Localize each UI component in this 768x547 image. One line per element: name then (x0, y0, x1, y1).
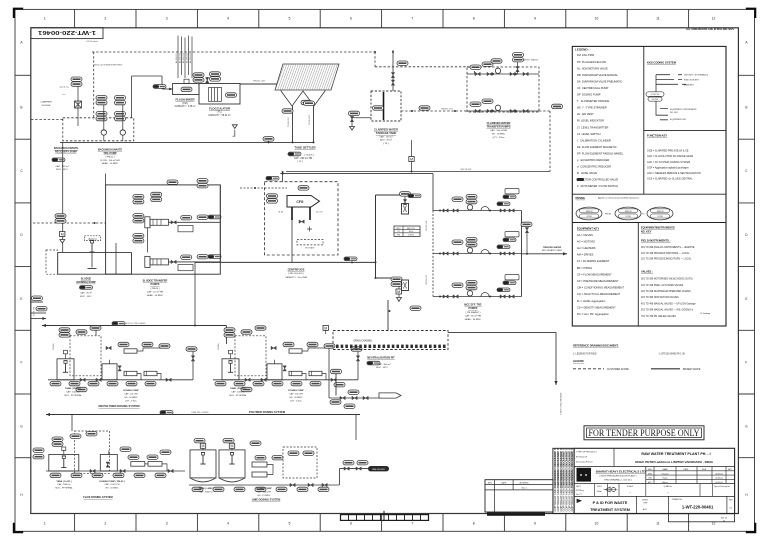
svg-text:MOC : PP SPIRAL: MOC : PP SPIRAL (64, 394, 82, 397)
tank 2 (267, 364, 282, 380)
svg-text:BR = PIPING: BR = PIPING (577, 266, 592, 270)
extra valve (283, 366, 286, 371)
svg-text:DM POLYMER DOSING SYSTEM: DM POLYMER DOSING SYSTEM (98, 404, 140, 408)
svg-text:KKS CODING SYSTEM: KKS CODING SYSTEM (647, 60, 677, 64)
dashed enclosure (235, 336, 266, 376)
svg-text:MOC : RCC: MOC : RCC (56, 169, 68, 171)
left frame tag upper (32, 296, 43, 300)
svg-text:CLARIFIED WATER: CLARIFIED WATER (374, 128, 398, 132)
sump water line (58, 251, 132, 253)
wire: channel outfall (448, 331, 556, 333)
piping code ovals (576, 207, 602, 220)
svg-text:DATE: DATE (501, 481, 507, 484)
svg-text:(DOSING) SUMP: (DOSING) SUMP (76, 281, 96, 284)
svg-text:( FM ): ( FM ) (182, 103, 188, 105)
svg-text:E: E (745, 297, 747, 301)
wire: pump1 discharge (169, 221, 221, 223)
svg-text:02-02-04: 02-02-04 (715, 478, 722, 480)
svg-text:CD = DENSITY MEASUREMENT: CD = DENSITY MEASUREMENT (577, 305, 616, 309)
svg-text:HEAD : 30 MWC: HEAD : 30 MWC (465, 318, 482, 321)
svg-text:F: F (21, 361, 23, 365)
dosing pumps (131, 462, 145, 467)
pump discharge dashed to right/down (539, 110, 550, 112)
svg-text:SLUDGE: SLUDGE (42, 105, 52, 107)
svg-text:CAP : 0-6 LPH: CAP : 0-6 LPH (289, 393, 303, 396)
svg-text:TREATMENT SYSTEM: TREATMENT SYSTEM (590, 508, 630, 512)
svg-text:TUBE SETTLER: TUBE SETTLER (294, 146, 315, 150)
pump: MCC eff 2 (467, 248, 472, 253)
centrifuge CFG symbol (287, 196, 320, 208)
pump: backwash transfer (101, 130, 106, 135)
svg-text:( TK ): ( TK ) (383, 143, 389, 145)
pump train 1 (433, 210, 522, 212)
svg-text:RAW WATER TREATMENT PLANT PH.: RAW WATER TREATMENT PLANT PH. - I (641, 452, 710, 456)
svg-text:EFF QTY: EFF QTY (407, 228, 415, 230)
actuated valve stack upper (402, 204, 409, 215)
svg-text:CAPACITY : 58.32 m³: CAPACITY : 58.32 m³ (208, 114, 230, 117)
instrument tags above flocculator (193, 73, 204, 82)
svg-text:Dte YY: Dte YY (576, 493, 582, 496)
svg-text:EQUIPMENT/INSTRUMENTS: EQUIPMENT/INSTRUMENTS (641, 227, 675, 230)
svg-text:5: 5 (289, 17, 291, 21)
pump: MCC eff 3 (467, 291, 472, 296)
svg-text:CL Garbage: CL Garbage (700, 312, 710, 315)
svg-text:AH = HEATERS: AH = HEATERS (577, 246, 596, 250)
svg-text:FROM: FROM (605, 214, 611, 216)
svg-text:TYPE: TYPE (643, 502, 648, 504)
title block: notes column (vertical text) (553, 448, 574, 513)
wire: drop to polymer sys 2 (225, 326, 227, 345)
svg-text:GCF = CL EVOLUTION DG RANGE G: GCF = CL EVOLUTION DG RANGE GEAR (647, 155, 693, 158)
filtrate dashed box (297, 240, 323, 245)
channel weir teeth (336, 345, 339, 348)
svg-text:SL IN: SL IN (278, 212, 283, 214)
setpoint box pump2 (178, 265, 193, 271)
svg-text:DOSING PUMP ( PM-02 ): DOSING PUMP ( PM-02 ) (99, 481, 125, 483)
svg-text:11: 11 (656, 521, 660, 525)
wire: lime/FeCl3 dosing header (46, 414, 360, 416)
scope legend lines (573, 368, 604, 370)
stamp: FOR TENDER PURPOSE ONLY (584, 426, 704, 440)
svg-text:101 TO 199 PNEU. ACTUATED VAL: 101 TO 199 PNEU. ACTUATED VALVES (641, 284, 684, 287)
svg-text:AVG : 29 m³: AVG : 29 m³ (380, 139, 392, 142)
manifold valves (80, 378, 85, 381)
svg-text:PUMPS: PUMPS (151, 283, 160, 286)
svg-text:AREA KEY: AREA KEY (684, 83, 695, 86)
svg-text:8: 8 (473, 17, 475, 21)
svg-text:CLARIFIED WATER: CLARIFIED WATER (487, 121, 511, 125)
wire: tank drain (352, 117, 371, 119)
svg-text:CAP : 800 m³: CAP : 800 m³ (377, 363, 390, 366)
svg-text:B: B (745, 106, 747, 110)
tags above enclosure (167, 180, 178, 184)
wire: stub (206, 77, 208, 84)
wire: floc outlet (240, 83, 277, 85)
svg-text:ENERGY WASTE: ENERGY WASTE (522, 58, 539, 61)
svg-text:LS(H/L): LS(H/L) (53, 343, 55, 350)
svg-text:ALTERED: ALTERED (519, 481, 529, 484)
backwash pump tag stacks (96, 96, 107, 105)
svg-text:DM POLY TRF & FEED: DM POLY TRF & FEED (124, 323, 146, 325)
wire: tank outlet dashed to pumps (401, 110, 467, 112)
svg-text:( TS-001 ): ( TS-001 ) (304, 154, 314, 156)
backwash waste instrument tags (71, 77, 82, 86)
svg-text:( PM 06A/B/C ): ( PM 06A/B/C ) (466, 311, 481, 314)
svg-text:1: 1 (44, 17, 46, 21)
svg-text:BIDDER SCOPE: BIDDER SCOPE (683, 369, 701, 371)
svg-text:EQUIPMENT KEY: EQUIPMENT KEY (577, 226, 599, 230)
svg-text:PP PLUGGED FELLOW: PP PLUGGED FELLOW (577, 60, 607, 64)
valve with X body (75, 101, 82, 108)
svg-text:QTY : 2 Nos: QTY : 2 Nos (493, 137, 506, 139)
svg-text:CAP : 20 m³: CAP : 20 m³ (80, 291, 92, 294)
tags train A (470, 65, 481, 69)
svg-text:CODE: CODE (586, 216, 592, 218)
wire: to flash mixer (132, 75, 162, 77)
svg-text:VALVES :: VALVES : (641, 270, 653, 274)
wire: backwash discharge riser (131, 76, 133, 118)
svg-text:REV: REV (488, 482, 493, 484)
tag: RW-SL line (153, 85, 166, 89)
svg-text:F: F (745, 361, 747, 365)
svg-text:PIPING: PIPING (576, 196, 585, 200)
wire: pump2 discharge (169, 261, 221, 263)
svg-text:CQ = ANALYTICAL MEASUREMENT: CQ = ANALYTICAL MEASUREMENT (577, 292, 621, 296)
manifold valves/tags (90, 469, 95, 472)
svg-text:DA DIAPHRAGM VALVE PNEUMATIC: DA DIAPHRAGM VALVE PNEUMATIC (577, 79, 622, 83)
tags below manifold (50, 381, 61, 385)
svg-text:b ROTA METER / FLOW SWITCH: b ROTA METER / FLOW SWITCH (577, 184, 618, 188)
dashed inlet from left (31, 119, 63, 121)
svg-text:CODE: CODE (657, 216, 663, 218)
svg-text:MCC: MCC (396, 228, 401, 230)
svg-text:LIME SLURRY: LIME SLURRY (372, 469, 386, 471)
tag stack above tanks (59, 328, 70, 337)
tank: flash mixer (173, 84, 199, 95)
extra valve (118, 366, 121, 371)
svg-text:CW-RL-015: CW-RL-015 (426, 275, 428, 285)
svg-text:MOC : RCC: MOC : RCC (80, 296, 92, 298)
pump train B line (467, 110, 539, 112)
lime slurry outlet (338, 469, 340, 485)
svg-text:001 TO 099 MOTORISED VALVE (N: 001 TO 099 MOTORISED VALVE (NO/NC OUTS) (641, 278, 693, 281)
third angle projection symbol (612, 488, 616, 492)
wire: tank inlet drop (392, 50, 394, 91)
svg-text:5: 5 (289, 521, 291, 525)
svg-text:AM = DRIVES: AM = DRIVES (577, 253, 594, 257)
svg-text:001 TO 099 ANALOG INSTRUMENTS: 001 TO 099 ANALOG INSTRUMENTS — REMOTE (641, 246, 695, 249)
svg-text:FUNCTION KEY: FUNCTION KEY (647, 134, 667, 138)
valve on transfer (271, 346, 276, 349)
svg-text:DOSING PUMP: DOSING PUMP (256, 488, 272, 490)
svg-text:DOSING PUMP: DOSING PUMP (288, 390, 304, 392)
title block: revision table (left) (485, 480, 553, 512)
svg-text:101 TO 199 PROCESS SWITCHES —: 101 TO 199 PROCESS SWITCHES — LOCAL (641, 252, 690, 255)
svg-text:speed reg: speed reg (60, 87, 69, 89)
KKS bracket diagram (656, 75, 686, 97)
svg-text:7: 7 (411, 521, 413, 525)
tag inside flash mixer (181, 87, 192, 91)
pump: dosing 1 (289, 371, 302, 375)
svg-text:DATE: DATE (684, 468, 689, 471)
svg-text:4: 4 (227, 17, 229, 21)
svg-text:DRAWG NO.: DRAWG NO. (672, 498, 683, 501)
wire: scope dash to pumps (375, 66, 474, 68)
tag pit inlet (331, 369, 342, 373)
sludge transfer pump 1 (145, 217, 150, 228)
svg-text:RECOVERY SUMP: RECOVERY SUMP (55, 151, 77, 154)
pump: clarified water train B (495, 105, 500, 110)
small valves on flocculator top (206, 78, 209, 83)
wire: drop to train A (517, 62, 519, 74)
scale bar (341, 515, 429, 521)
top tags of pump cluster (491, 59, 502, 63)
pump: clarified water train A (495, 68, 500, 73)
bottom row: title + number (636, 496, 638, 513)
legend symbol for MV row (577, 178, 584, 181)
svg-text:LS(H/L): LS(H/L) (218, 343, 220, 350)
svg-text:DOCUMENT IS: DOCUMENT IS (570, 448, 574, 467)
svg-text:CM = CONDITIONING MEASUREMENT: CM = CONDITIONING MEASUREMENT (577, 286, 624, 290)
manifold line FeCl3 (46, 470, 185, 472)
tank 2 (100, 455, 117, 472)
svg-text:HD : 50 MWC: HD : 50 MWC (125, 397, 138, 399)
tank 2 (102, 364, 117, 380)
svg-text:SIZE IN: SIZE IN (625, 211, 632, 213)
svg-text:2 NOS: 2 NOS (408, 235, 414, 237)
svg-text:P & ID FOR WASTE: P & ID FOR WASTE (593, 501, 628, 505)
MCC pump manifold (432, 211, 434, 297)
tank 1 with agitator (222, 359, 239, 380)
svg-text:2: 2 (104, 17, 106, 21)
svg-text:POLYMER DOSING SYSTEM: POLYMER DOSING SYSTEM (249, 410, 286, 414)
svg-text:201 TO 299 PROCESS INDICATORS: 201 TO 299 PROCESS INDICATORS — LOCAL (641, 258, 692, 261)
svg-text:1. LEGEND FOR P&ID: 1. LEGEND FOR P&ID (573, 353, 597, 355)
extra tag FeCl3 b (160, 450, 171, 454)
svg-text:AL-DS-001: AL-DS-001 (175, 52, 178, 63)
svg-text:LEGEND : -: LEGEND : - (575, 48, 591, 52)
tag at drain (349, 111, 360, 115)
wire: drop to pump suction (473, 67, 475, 74)
svg-text:NO. KEY: NO. KEY (670, 112, 679, 114)
left small table (394, 226, 420, 236)
flocculator paddle grid (209, 88, 222, 102)
wire: scope dash left drop (93, 52, 95, 120)
wire: drop to FeCl3 (71, 415, 73, 432)
svg-text:CENTRIFUGE: CENTRIFUGE (288, 267, 305, 271)
svg-text:00 XXX: 00 XXX (652, 99, 659, 101)
svg-text:AV AIR VENT: AV AIR VENT (577, 112, 594, 116)
svg-text:BHARAT HEAVY ELECTRICALS LTD.: BHARAT HEAVY ELECTRICALS LTD. (596, 469, 647, 473)
svg-text:RW-RL-007: RW-RL-007 (441, 108, 453, 110)
svg-text:rev: rev (63, 94, 66, 96)
left instrument stack lower (398, 281, 400, 302)
sump level instruments (55, 214, 66, 223)
tag in tank (373, 106, 384, 110)
pump: backwash transfer (120, 130, 125, 135)
svg-text:AL-DS-005: AL-DS-005 (189, 52, 192, 63)
wire: line into sump area (62, 142, 64, 252)
wire: instrument stem (77, 86, 79, 126)
svg-text:FLASH MIXER: FLASH MIXER (176, 98, 195, 102)
svg-text:FUNCTION KEY: FUNCTION KEY (684, 80, 700, 82)
svg-text:TRF. PUMP: TRF. PUMP (103, 152, 117, 155)
svg-text:AG = MOTORS: AG = MOTORS (577, 239, 595, 243)
svg-text:701 TO 799 PR. RELIEF VALVES: 701 TO 799 PR. RELIEF VALVES (641, 315, 676, 318)
pump: dosing 2 (144, 371, 157, 375)
svg-text:12: 12 (712, 17, 716, 21)
svg-text:SH. 01: SH. 01 (721, 517, 728, 519)
svg-text:1-WT-220-00461: 1-WT-220-00461 (38, 29, 96, 35)
svg-text:Gen 1: Gen 1 (521, 488, 527, 490)
svg-text:CAP : 150 m³: CAP : 150 m³ (55, 165, 68, 168)
svg-text:NO. KEY: NO. KEY (641, 230, 652, 233)
setpoint box pump1 (178, 225, 193, 231)
svg-text:CW-RL-014: CW-RL-014 (426, 221, 428, 231)
upper dosing pump (124, 349, 137, 353)
wire: settler sludge leg 2 (313, 106, 315, 142)
sump dashed extension (46, 250, 58, 274)
svg-text:CAP : 100 m³/HR: CAP : 100 m³/HR (490, 129, 507, 132)
svg-text:EQUIPMENT / INSTRUMENT: EQUIPMENT / INSTRUMENT (670, 109, 697, 111)
svg-text:CF CENTRIFUGAL PUMP: CF CENTRIFUGAL PUMP (577, 86, 609, 90)
wire: pump column (122, 105, 124, 131)
svg-text:CAPACITY : 4.35 m³: CAPACITY : 4.35 m³ (175, 105, 196, 108)
svg-text:TYPE OF PRODUCT: TYPE OF PRODUCT (576, 451, 597, 453)
extra tag FeCl3 a (120, 447, 131, 451)
svg-text:Noida: Noida (597, 491, 602, 493)
svg-text:B HOSE VALVE: B HOSE VALVE (577, 171, 597, 175)
black capsule: to lime slurry (368, 466, 389, 471)
chemical dosing feed risers into flash mixer (177, 36, 179, 79)
svg-text:WKD: WKD (648, 469, 653, 471)
tag: CLW TNK (552, 104, 563, 108)
funnel: drain (350, 127, 355, 131)
svg-text:( PM-01 ): ( PM-01 ) (105, 156, 114, 158)
wire: long connector above (280, 173, 433, 175)
svg-text:PUMPS: PUMPS (469, 307, 478, 310)
svg-text:UNIT KEY ( SYSTEMATIC): UNIT KEY ( SYSTEMATIC) (684, 74, 709, 77)
svg-text:201 TO 299 DIAPHRAGM OPERATED: 201 TO 299 DIAPHRAGM OPERATED VALVES (641, 290, 691, 293)
svg-text:WS-TK-001: WS-TK-001 (461, 169, 473, 171)
svg-text:CAP : 292 m³/ HR: CAP : 292 m³/ HR (294, 157, 313, 160)
wire: filtrate line (195, 261, 376, 263)
centrifuge tags (266, 176, 279, 180)
svg-text:DRAIN CHANNEL: DRAIN CHANNEL (354, 340, 373, 343)
tags above lime tanks (194, 439, 205, 443)
wire: cake drop (291, 220, 293, 262)
svg-text:SIZE IN: SIZE IN (657, 211, 664, 213)
wire: drop to lime (355, 415, 357, 441)
svg-text:Type of Drawing No.: Type of Drawing No. (714, 486, 731, 488)
pump tag clusters (133, 195, 144, 204)
svg-text:S.Kumar: S.Kumar (662, 473, 669, 475)
svg-text:( FL ): ( FL ) (217, 112, 223, 114)
tags train B (470, 102, 481, 106)
svg-text:STORAGE TANK: STORAGE TANK (376, 131, 397, 135)
drop off treated line (526, 232, 528, 254)
upper dosing pump (289, 349, 302, 353)
svg-text:9: 9 (534, 17, 536, 21)
wire: polymer dosing header (42, 325, 226, 327)
svg-text:MCC EFF. TRF.: MCC EFF. TRF. (464, 304, 482, 307)
manifold line lime (189, 484, 339, 486)
svg-text:CLARIFIER: CLARIFIER (40, 101, 52, 104)
svg-text:ON Tender/t: ON Tender/t (86, 40, 98, 43)
wire: settler sludge leg 1 (292, 106, 294, 142)
svg-text:REFERENCE DRAWING/DOCUMENT:: REFERENCE DRAWING/DOCUMENT: (573, 344, 619, 348)
wire: inner vertical (115, 243, 117, 274)
svg-text:GCB = CLARIFIED PRE AGE LR: GCB = CLARIFIED PRE AGE LR & CE (647, 150, 689, 153)
svg-text:TANK ( PM-03 ): TANK ( PM-03 ) (230, 387, 246, 390)
middle row cells (574, 495, 735, 497)
svg-text:B: B (20, 106, 22, 110)
svg-text:HD : 50 MWC: HD : 50 MWC (290, 397, 303, 399)
pump: dosing 2 (309, 371, 322, 375)
svg-text:ci CONCENTRIC REDUCER: ci CONCENTRIC REDUCER (577, 165, 611, 169)
svg-text:CFG: CFG (296, 200, 304, 204)
svg-text:p ECCENTRIC REDUCER: p ECCENTRIC REDUCER (577, 158, 609, 162)
svg-text:30 m³: 30 m³ (409, 230, 414, 233)
svg-text:PROJ: PROJ (597, 486, 602, 488)
lime transfer pumps (252, 462, 267, 467)
svg-text:SLUDGE TRANSFER: SLUDGE TRANSFER (143, 280, 168, 283)
tag: TS-PL (288, 152, 301, 156)
svg-text:NL NON RETURN VALVE: NL NON RETURN VALVE (577, 66, 608, 70)
drain channel (dashed outline) (333, 331, 448, 350)
svg-text:I CALIBRATION CYLINDER: I CALIBRATION CYLINDER (577, 138, 611, 142)
pump: dosing 1 (124, 371, 137, 375)
svg-text:AT = FILTERING ELEMENT: AT = FILTERING ELEMENT (577, 259, 610, 263)
wire: scope dash drop (374, 52, 376, 67)
wire: drop into mixer (161, 76, 163, 89)
svg-text:E: E (20, 297, 22, 301)
svg-text:Schematic/Fixture: Schematic/Fixture (576, 460, 593, 463)
svg-text:1: 1 (44, 521, 46, 525)
svg-text:GCK = CC SYSTEM, DOSING SYSTEM: GCK = CC SYSTEM, DOSING SYSTEM (647, 161, 690, 164)
sump agitator (85, 236, 101, 241)
wire: waste line to centrifuge (286, 171, 550, 173)
svg-text:FOR TENDER PURPOSE ONLY: FOR TENDER PURPOSE ONLY (589, 429, 700, 439)
svg-text:TANK ( FeCl3 ): TANK ( FeCl3 ) (56, 480, 71, 483)
svg-text:FR FLOW ELEMENT PADDLE WHEEL: FR FLOW ELEMENT PADDLE WHEEL (577, 151, 624, 155)
svg-text:FLOCCULATOR: FLOCCULATOR (209, 106, 230, 110)
tag inside flocculator (226, 93, 237, 97)
svg-text:QTY : 2 Nos.: QTY : 2 Nos. (290, 400, 302, 402)
svg-text:NAME: NAME (662, 468, 668, 471)
svg-text:SIGN: SIGN (702, 469, 707, 471)
tank: flocculator (199, 84, 240, 105)
right table (name/date) (645, 467, 647, 484)
svg-text:Mohan: Mohan (662, 482, 668, 484)
valve pump2 discharge (171, 260, 176, 263)
dashed enclosure (75, 431, 110, 473)
pump: MCC eff 1 (467, 205, 472, 210)
svg-text:CF = FLOW MEASUREMENT: CF = FLOW MEASUREMENT (577, 272, 612, 276)
svg-text:BY Hand Of: BY Hand Of (576, 456, 587, 458)
svg-text:DB DIAPHRAGM VALVE MANUAL: DB DIAPHRAGM VALVE MANUAL (577, 73, 619, 77)
svg-text:: 1-WT-220-00462 FIG. 00: : 1-WT-220-00462 FIG. 00 (658, 353, 686, 355)
weir plate in tank (383, 92, 385, 120)
svg-text:CAPACITY : 20 m³/HR: CAPACITY : 20 m³/HR (285, 276, 307, 279)
svg-text:FC-RL-001: FC-RL-001 (34, 307, 36, 316)
tag 2 on settler (304, 101, 315, 105)
drawing number box top-left (31, 28, 103, 39)
agitator shaft (89, 240, 94, 252)
tube settler hatched media (275, 64, 339, 90)
svg-text:( TS ): ( TS ) (297, 161, 303, 163)
svg-text:DP DOSING PUMP: DP DOSING PUMP (577, 93, 601, 97)
